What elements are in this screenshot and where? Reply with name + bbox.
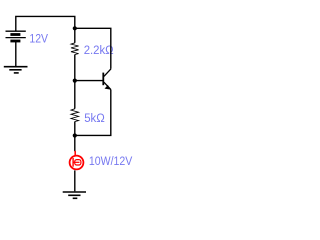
svg-text:5kΩ: 5kΩ (84, 111, 105, 125)
wire emitter to node C (75, 90, 111, 136)
node C junction dot (73, 133, 77, 137)
resistor R2 5kOhm (71, 109, 79, 122)
wire node A to collector corner (75, 28, 111, 69)
wire R1 to node B (74, 54, 76, 80)
wire R2 to node C (74, 121, 76, 135)
svg-text:2.2kΩ: 2.2kΩ (84, 43, 114, 57)
wire node B down to R2 (74, 81, 76, 109)
svg-text:12V: 12V (29, 31, 48, 45)
battery V1 12V (6, 31, 26, 41)
node A junction dot (73, 26, 77, 30)
wire node C to lamp (74, 136, 76, 152)
svg-text:10W/12V: 10W/12V (89, 154, 133, 168)
wire battery minus to ground (15, 42, 17, 67)
transistor Q1 npn (103, 69, 111, 90)
wire node B to base (75, 80, 103, 82)
ground (battery side) (4, 67, 28, 73)
node B junction dot (73, 79, 77, 83)
ground (lamp side) (63, 192, 86, 198)
wire lamp to ground (74, 170, 76, 191)
lamp LP1 10W/12V (70, 151, 84, 170)
wire battery plus to node A (16, 16, 75, 31)
wire node A down to R1 (74, 28, 76, 43)
resistor R1 2.2kOhm (71, 43, 79, 55)
